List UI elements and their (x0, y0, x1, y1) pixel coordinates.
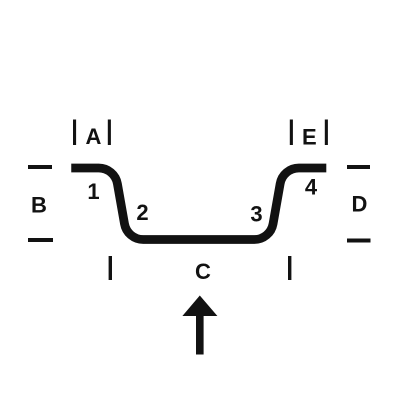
tick C right (288, 256, 291, 280)
svg-text:2: 2 (136, 200, 148, 225)
dash D top (347, 165, 370, 169)
tick A right (108, 120, 111, 146)
dash B top (28, 165, 52, 169)
bent sheet profile (71, 168, 326, 240)
arrow head (182, 296, 217, 317)
tick A left (73, 120, 76, 146)
arrow shaft (196, 315, 204, 355)
svg-text:A: A (86, 124, 102, 149)
svg-text:D: D (352, 192, 368, 217)
tick E right (325, 120, 328, 146)
svg-text:3: 3 (250, 201, 262, 226)
svg-text:C: C (195, 259, 211, 284)
tick E left (290, 120, 293, 146)
svg-text:4: 4 (305, 175, 318, 200)
svg-text:E: E (302, 125, 317, 150)
dash B bottom (28, 238, 53, 242)
svg-text:1: 1 (87, 179, 99, 204)
dash D bottom (347, 239, 371, 243)
svg-text:B: B (31, 193, 47, 218)
tick C left (109, 256, 112, 280)
